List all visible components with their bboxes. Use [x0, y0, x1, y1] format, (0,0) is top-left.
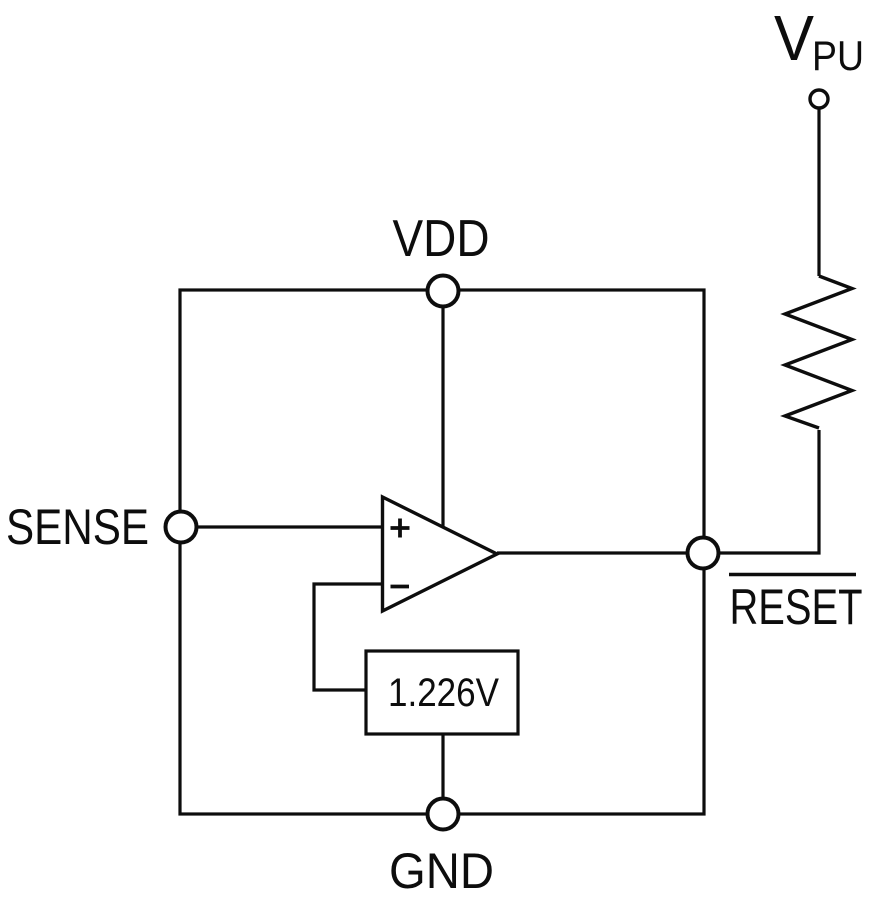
pin circle SENSE: [166, 512, 197, 543]
wire RESET pin to resistor bottom: [718, 430, 819, 553]
pin circle GND: [428, 799, 459, 830]
svg-text:GND: GND: [389, 843, 494, 899]
op-amp comparator U1: [383, 497, 498, 611]
svg-text:RESET: RESET: [730, 579, 863, 635]
terminal circle VPU: [810, 90, 828, 108]
wire SENSE pin to op-amp + input: [196, 525, 384, 528]
wire op-amp - input feedback to reference: [314, 584, 384, 690]
svg-text:PU: PU: [812, 32, 864, 79]
op-amp + input symbol: [391, 519, 410, 538]
wire VDD pin to op-amp top: [441, 305, 444, 527]
wire VPU terminal to resistor top: [817, 109, 820, 276]
svg-text:1.226V: 1.226V: [388, 671, 499, 715]
resistor R1 pull-up: [785, 276, 852, 428]
overline for RESET: [729, 573, 856, 577]
reference box 1.226V: [366, 651, 518, 734]
label VPU: [774, 2, 864, 79]
svg-text:VDD: VDD: [393, 210, 490, 268]
pin circle RESET output: [688, 538, 719, 569]
svg-text:V: V: [774, 2, 814, 74]
pin circle VDD: [428, 276, 459, 307]
IC body box U1: [180, 290, 704, 814]
wire reference box to GND pin: [441, 734, 444, 800]
wire op-amp output to RESET pin: [497, 551, 703, 554]
svg-text:SENSE: SENSE: [6, 499, 149, 555]
op-amp - input symbol: [391, 585, 410, 589]
